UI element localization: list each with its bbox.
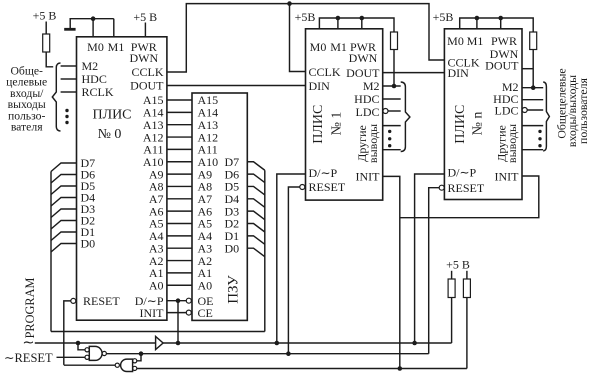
gate DD1 body [89,346,102,360]
svg-text:DOUT: DOUT [130,79,164,93]
wire reset line (DD1 out) [106,353,428,355]
buffer DD3 [156,337,164,350]
svg-text:+5В: +5В [295,10,316,24]
svg-text:RESET: RESET [448,181,485,195]
wire A12 [167,136,192,138]
svg-text:HDC: HDC [82,72,107,86]
junction DD1 out to DD2 [139,351,144,356]
D data bus bottom wire [51,331,265,333]
svg-text:DIN: DIN [448,66,470,80]
wire CCLK into U2 [290,4,306,72]
wire A15 [167,99,192,101]
gate DD2 input bubble B [133,366,137,370]
label общецелевые входы/выходы пользователя (right) [555,68,590,147]
wire A9 [167,173,192,175]
wire U1 D5 [51,186,77,195]
svg-text:M0: M0 [447,34,464,48]
gate DD1 output bubble [102,351,106,355]
wire ROM D1 [247,236,264,245]
svg-text:пользователя: пользователя [576,78,590,144]
wire A2 [167,260,192,262]
junction M0 tie [91,16,96,21]
wire U1 D6 [51,175,77,184]
U1 pins A15-A0 labels [143,93,164,292]
wire PROGRAM pull-up riser [451,298,453,344]
junction CCLK to U2 [287,1,292,6]
resistor R3 [530,32,537,50]
wire A5 [167,223,192,225]
wire ROM D6 [247,174,264,183]
wire A6 [167,210,192,212]
wire +5В to R1 [45,22,47,35]
wire U2 PWR pin [361,18,363,29]
wire ROM D0 [247,248,264,257]
FPGA U2 ПЛИС №1 body [306,29,383,200]
wire A14 [167,111,192,113]
U3 LDC pin wire [527,109,543,111]
wire U2 DOUT to U3 DIN [383,72,445,74]
svg-text:ПЗУ: ПЗУ [225,275,241,304]
svg-text:INIT: INIT [356,170,381,184]
svg-text:M1: M1 [330,40,347,54]
svg-text:D/∼P: D/∼P [309,166,338,180]
wire A10 [167,161,192,163]
svg-text:LDC: LDC [495,104,519,118]
U2 LDC pin bubble [383,109,388,114]
wire U3 INIT [400,176,539,218]
gate DD1 input bubble A [85,348,89,352]
svg-text:DOUT: DOUT [485,59,519,73]
svg-text:D0: D0 [81,237,96,251]
U2 aux pin wire lower [383,149,401,151]
GPIO group brace left [52,63,60,131]
U3 GPIO brace right [543,82,549,151]
gate DD1 input bubble B [85,355,89,359]
junction PROGRAM to gate DD1 [76,341,81,346]
U2 RESET pin bubble [300,185,305,190]
junction U3 M1 [475,16,480,21]
wire U1 D4 [51,198,77,207]
svg-text:+5 В: +5 В [33,9,57,23]
wire PROGRAM tap to DD1 input [78,343,85,350]
FPGA U3 ПЛИС №n body [444,29,522,200]
U1 M2 pin wire [61,65,77,67]
wire A1 [167,272,192,274]
wire ROM D2 [247,224,264,233]
svg-text:M1: M1 [467,34,484,48]
gate DD2 output bubble [115,363,119,367]
wire U1 D0 [51,244,77,253]
junction R2-M2 [392,84,397,89]
U3 RESET pin bubble [439,185,444,190]
wire U3 RESET [429,188,440,354]
ROM pins D7-D0 labels [225,155,240,255]
wire R4 to +5V [451,271,453,279]
gate DD2 input bubble A [133,359,137,363]
wire U1 CCLK out [167,4,445,72]
wire U2 INIT [383,176,400,368]
wire M0-M1 tie to ground [70,18,114,20]
svg-text:выводы: выводы [505,124,519,163]
junction U2 PWR [360,16,365,21]
wire U2 D/~P [277,174,306,343]
U1 pins D7-D0 labels [81,156,96,251]
wire DD1 out tap to DD2 input [137,354,141,361]
U3 HDC pin wire [522,99,543,101]
wire U1 D7 [51,163,77,172]
svg-text:RESET: RESET [309,180,346,194]
U2 LDC pin wire [388,110,401,112]
wire D/~P down to PROGRAM line [177,301,179,343]
svg-text:∼RESET: ∼RESET [4,351,53,365]
ROM pins A15-A0 labels [198,93,219,292]
svg-text:PROGRAM: PROGRAM [23,278,37,339]
U2 aux pin wire upper [383,125,401,127]
svg-text:PWR: PWR [491,34,517,48]
D data bus vertical (left) [50,172,52,332]
junction U3 PWR [498,16,503,21]
U3 aux pin wire upper [522,125,543,127]
svg-text:№ n: № n [471,112,486,136]
U1 pin PWR DWN label [129,40,158,65]
ROM CE pin bubble [186,310,191,315]
wire U1 D2 [51,221,77,230]
wire ~RESET to DD1 [57,356,86,358]
svg-text:LDC: LDC [356,105,380,119]
svg-text:M0: M0 [87,40,104,54]
wire init line (DD2 input) [137,368,467,370]
svg-text:DWN: DWN [129,51,158,65]
wire A7 [167,198,192,200]
wire U2 mode +5V rail [319,18,394,32]
svg-text:DWN: DWN [349,51,378,65]
U1 M0 pin wire [92,19,94,37]
junction U2 M1 [336,16,341,21]
svg-text:∼: ∼ [22,335,34,351]
svg-text:D/∼P: D/∼P [448,166,477,180]
junction U2 D/~P on PROGRAM line [275,341,280,346]
svg-text:+5 В: +5 В [446,258,470,272]
junction U2 RESET on reset line [286,351,291,356]
svg-text:выводы: выводы [366,124,380,163]
U3 aux pin wire lower [522,149,543,151]
wire U1 D1 [51,232,77,241]
U2 GPIO ellipsis dots [388,130,391,148]
ROM ПЗУ body [192,93,247,320]
resistor R1 [43,34,50,52]
wire R5 to +5V [466,271,468,279]
svg-text:A0: A0 [198,278,213,292]
junction D/~P on PROGRAM line [176,341,181,346]
U1 M1 pin wire [113,19,115,37]
junction D/~P [176,298,181,303]
resistor R5 [463,279,470,298]
U3 LDC pin bubble [522,108,527,113]
svg-text:ПЛИС: ПЛИС [311,105,326,144]
wire ROM D7 [247,162,264,171]
wire R5 to init line [466,298,468,369]
svg-text:ПЛИС: ПЛИС [453,105,468,144]
U2 pin PWR DWN label [349,40,378,65]
D data bus vertical (right) [264,170,266,331]
wire PROGRAM line segment 1 [35,342,156,344]
wire U1 D3 [51,209,77,218]
U1 HDC pin wire [61,78,77,80]
svg-text:RCLK: RCLK [82,85,114,99]
wire A13 [167,124,192,126]
svg-text:+5 В: +5 В [133,10,157,24]
wire A3 [167,247,192,249]
U2 HDC pin wire [383,98,401,100]
svg-text:D0: D0 [225,241,240,255]
svg-text:CCLK: CCLK [131,65,163,79]
wire U3 D/~P [415,174,445,343]
wire U3 M1 pin [476,18,478,29]
wire U3 PWR pin [500,18,502,29]
wire A11 [167,148,192,150]
U1 RESET pin bubble [71,298,76,303]
wire ROM D5 [247,186,264,195]
svg-text:M1: M1 [108,40,125,54]
wire R1 to GPIO group [46,52,53,67]
wire U1 RESET [64,301,71,365]
svg-text:вателя: вателя [11,121,43,134]
wire A8 [167,185,192,187]
svg-text:ПЛИС: ПЛИС [92,108,131,123]
ground [64,28,75,31]
U1 label № 0 [98,127,122,142]
svg-text:RESET: RESET [83,294,120,308]
wire INIT to CE [167,312,186,314]
wire DD2 out to U1 RESET [64,364,115,366]
GPIO ellipsis dots [65,109,68,124]
ground lead [69,18,71,28]
svg-text:A0: A0 [149,278,164,292]
wire U1 DOUT to U2 DIN [167,85,306,87]
svg-text:M0: M0 [310,40,327,54]
FPGA U1 ПЛИС №0 body [77,37,167,320]
wire U2 M1 pin [337,18,339,29]
svg-text:M2: M2 [82,59,99,73]
resistor R4 [448,279,455,298]
svg-text:CCLK: CCLK [309,65,341,79]
gate DD2 body [121,359,133,371]
U1 PWR pin wire [144,23,146,37]
U3 M2 pin wire [522,87,543,89]
wire R3 to M2 [532,50,534,88]
svg-text:CE: CE [198,306,213,320]
svg-text:№ 1: № 1 [330,112,345,136]
U2 M2 pin wire [383,85,401,87]
svg-text:№ 0: № 0 [98,127,122,142]
wire U3 DOUT stub [522,68,533,70]
svg-text:DOUT: DOUT [346,66,380,80]
U3 GPIO ellipsis dots [538,130,541,148]
wire A0 [167,284,192,286]
junction R3-M2 [531,85,536,90]
wire A4 [167,235,192,237]
svg-text:INIT: INIT [495,169,520,183]
U1 label ПЛИС [92,108,131,123]
junction U3 D/~P on PROGRAM line [412,341,417,346]
wire U2 RESET [288,187,299,354]
svg-text:+5В: +5В [433,10,454,24]
U1 RCLK pin wire [61,91,77,93]
wire ROM D3 [247,211,264,220]
U3 pin PWR DWN label [490,34,519,61]
svg-text:DIN: DIN [309,79,331,93]
wire ROM D4 [247,199,264,208]
svg-text:INIT: INIT [140,306,165,320]
U2 GPIO brace right [401,82,410,152]
wire D/~P to OE [167,300,186,302]
label общецелевые входы/выходы пользователя (left) [6,65,47,134]
wire U3 mode +5V rail [460,18,534,32]
junction INIT on init line [398,366,403,371]
wire R2 to M2 [393,50,395,87]
wire PROGRAM line segment 2 [163,342,452,344]
resistor R2 [391,32,398,50]
ROM OE pin bubble [186,298,191,303]
